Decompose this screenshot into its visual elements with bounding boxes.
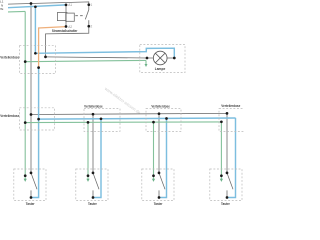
- svg-text:2: 2: [91, 25, 93, 29]
- svg-text:Verteilerdose: Verteilerdose: [84, 105, 103, 109]
- svg-text:A1: A1: [68, 3, 72, 7]
- svg-text:Verteilerdose: Verteilerdose: [0, 114, 19, 118]
- svg-text:Lampe: Lampe: [155, 67, 166, 71]
- svg-text:Taster: Taster: [221, 202, 231, 206]
- svg-text:Verteilerdose: Verteilerdose: [221, 104, 240, 108]
- svg-text:Taster: Taster: [88, 202, 98, 206]
- svg-text:Taster: Taster: [154, 202, 164, 206]
- svg-text:PE: PE: [0, 7, 3, 11]
- svg-text:Stromstoßschalter: Stromstoßschalter: [52, 29, 78, 33]
- svg-text:Verteilerdose: Verteilerdose: [151, 104, 170, 108]
- svg-text:Taster: Taster: [26, 202, 36, 206]
- svg-text:1: 1: [91, 3, 93, 7]
- svg-text:Verteilerdose: Verteilerdose: [0, 56, 19, 60]
